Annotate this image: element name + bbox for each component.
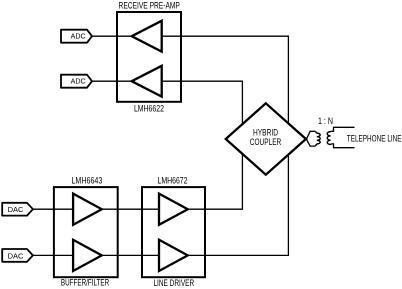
svg-text:COUPLER: COUPLER bbox=[250, 137, 282, 147]
svg-text:ADC: ADC bbox=[71, 32, 86, 41]
svg-text:LMH6643: LMH6643 bbox=[71, 176, 102, 186]
svg-text:DAC: DAC bbox=[8, 205, 24, 214]
svg-text:DAC: DAC bbox=[8, 251, 24, 260]
svg-text:ADC: ADC bbox=[71, 77, 86, 86]
svg-text:RECEIVE PRE-AMP: RECEIVE PRE-AMP bbox=[119, 0, 180, 10]
svg-text:BUFFER/FILTER: BUFFER/FILTER bbox=[61, 278, 110, 288]
svg-text:1 : N: 1 : N bbox=[318, 116, 333, 126]
svg-text:LINE DRIVER: LINE DRIVER bbox=[153, 278, 194, 288]
svg-text:LMH6622: LMH6622 bbox=[134, 103, 164, 113]
svg-text:LMH6672: LMH6672 bbox=[158, 176, 188, 186]
svg-text:TELEPHONE LINE: TELEPHONE LINE bbox=[347, 133, 402, 143]
